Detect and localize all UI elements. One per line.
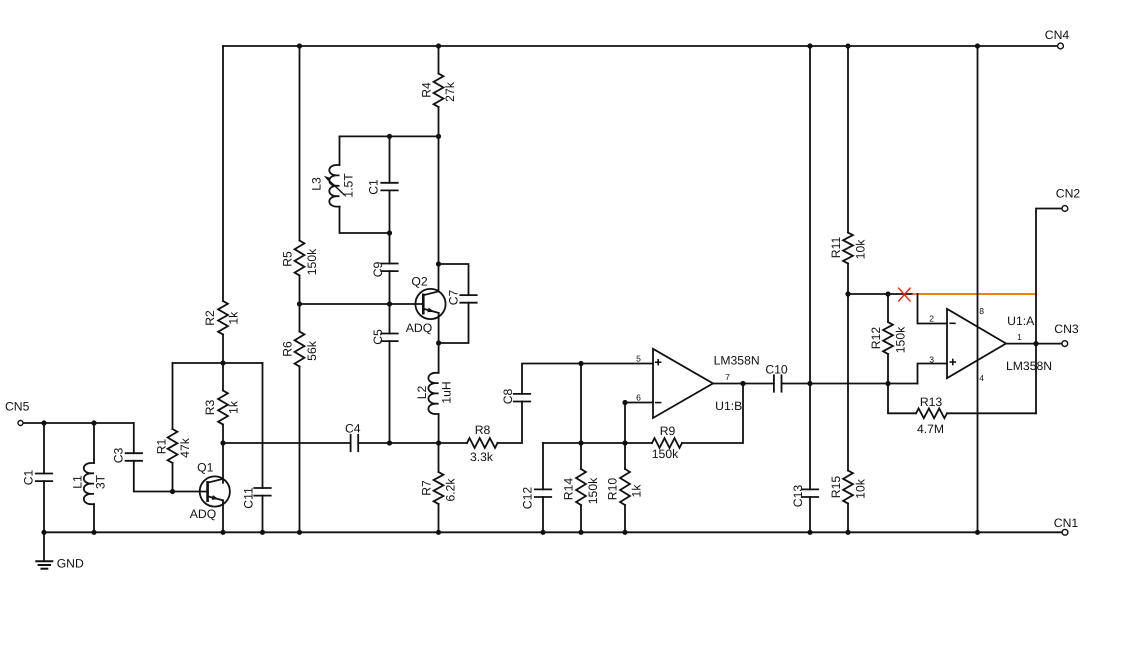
svg-text:LM358N: LM358N bbox=[714, 354, 760, 368]
svg-text:27k: 27k bbox=[443, 81, 457, 102]
svg-text:CN1: CN1 bbox=[1054, 516, 1079, 530]
svg-text:R1: R1 bbox=[155, 438, 169, 454]
svg-text:Q1: Q1 bbox=[197, 461, 213, 475]
ERC error mark X bbox=[899, 288, 910, 301]
wire bias node line bbox=[173, 362, 263, 364]
capacitor C1 tank bbox=[381, 182, 397, 184]
junction bottom rail R15 bbox=[845, 530, 850, 535]
svg-text:1k: 1k bbox=[630, 484, 644, 498]
wire C4 signal line bbox=[223, 442, 351, 444]
resistor R8 bbox=[467, 438, 498, 448]
resistor R6 bbox=[295, 332, 305, 367]
wire R3 leads bbox=[222, 363, 224, 391]
wire top power rail bbox=[223, 45, 1058, 47]
wire U1B output line bbox=[714, 383, 774, 385]
wire L3 leads and tank bottom bbox=[339, 136, 341, 165]
svg-text:7: 7 bbox=[725, 372, 730, 382]
svg-text:R4: R4 bbox=[420, 82, 434, 98]
svg-text:C4: C4 bbox=[345, 422, 361, 436]
svg-text:150k: 150k bbox=[652, 447, 679, 461]
svg-text:R6: R6 bbox=[281, 341, 295, 357]
svg-text:C7: C7 bbox=[447, 289, 461, 305]
junction Q2 collector C7 bbox=[436, 261, 441, 266]
junction bottom rail GND bbox=[41, 530, 46, 535]
wire CN5 input line bbox=[23, 422, 133, 424]
svg-text:1k: 1k bbox=[227, 400, 241, 414]
svg-text:47k: 47k bbox=[178, 437, 192, 458]
op-amp U1:A bbox=[947, 309, 1006, 378]
wire C11 branch bbox=[262, 363, 264, 488]
capacitor C10 bbox=[773, 375, 775, 391]
svg-text:R14: R14 bbox=[562, 478, 576, 501]
junction tank bottom bbox=[387, 230, 392, 235]
svg-text:R9: R9 bbox=[660, 424, 676, 438]
svg-text:2: 2 bbox=[929, 313, 934, 323]
svg-text:C9: C9 bbox=[371, 261, 385, 277]
capacitor C13 bbox=[802, 488, 818, 490]
wire pin3 stub bbox=[918, 364, 948, 384]
capacitor C12 bbox=[535, 488, 551, 490]
capacitor C8 bbox=[514, 393, 530, 395]
junction CN5 line C1 bbox=[41, 420, 46, 425]
resistor R2 bbox=[218, 301, 228, 335]
wire R9 node line bbox=[543, 442, 652, 444]
junction pin5 line R14 bbox=[578, 361, 583, 366]
svg-text:R13: R13 bbox=[920, 395, 943, 409]
svg-text:C10: C10 bbox=[765, 362, 788, 376]
resistor R9 bbox=[652, 438, 682, 448]
svg-text:GND: GND bbox=[57, 557, 84, 571]
svg-text:1k: 1k bbox=[227, 311, 241, 325]
svg-text:CN3: CN3 bbox=[1054, 322, 1079, 336]
capacitor C4 bbox=[350, 435, 352, 451]
junction bottom rail L1 bbox=[91, 530, 96, 535]
resistor R12 bbox=[883, 322, 893, 354]
inductor L3 variable bbox=[329, 165, 339, 207]
wire pin6 and R10 branch bbox=[625, 403, 653, 470]
capacitor C11 bbox=[254, 487, 270, 489]
wire tank C1 leads bbox=[389, 136, 391, 182]
svg-text:ADQ: ADQ bbox=[190, 507, 216, 521]
svg-text:Q2: Q2 bbox=[411, 275, 427, 289]
connector CN5 bbox=[18, 421, 23, 426]
wire R12 leads bbox=[887, 294, 889, 322]
junction R11 R15 node bbox=[845, 291, 850, 296]
junction top rail R5 branch bbox=[297, 43, 302, 48]
svg-text:C1: C1 bbox=[22, 469, 36, 485]
junction bias node R2 R3 bbox=[220, 360, 225, 365]
svg-text:R3: R3 bbox=[203, 399, 217, 415]
svg-text:LM358N: LM358N bbox=[1006, 359, 1052, 373]
junction tank top C1 bbox=[387, 134, 392, 139]
wire R2 branch bbox=[222, 46, 224, 301]
junction bottom rail pin4 bbox=[975, 530, 980, 535]
wire highlighted net bbox=[914, 293, 1037, 295]
wire U1A output to CN3 bbox=[1006, 343, 1062, 345]
svg-text:C3: C3 bbox=[112, 447, 126, 463]
junction C5 column C4 line bbox=[387, 440, 392, 445]
junction bottom rail C11 bbox=[260, 530, 265, 535]
wire L1 leads bbox=[93, 423, 95, 463]
svg-text:C11: C11 bbox=[242, 487, 256, 509]
svg-text:CN2: CN2 bbox=[1056, 187, 1081, 201]
transistor Q1 bbox=[200, 476, 230, 506]
junction bottom rail C12 bbox=[540, 530, 545, 535]
svg-text:R15: R15 bbox=[829, 476, 843, 499]
svg-text:6.2k: 6.2k bbox=[444, 478, 458, 502]
junction CN5 line L1 bbox=[91, 420, 96, 425]
wire Q2 emitter to L2 bbox=[438, 313, 440, 373]
wire C9 C5 column bbox=[389, 233, 391, 264]
svg-text:1uH: 1uH bbox=[440, 381, 454, 403]
wire R4 collector branch bbox=[438, 46, 440, 74]
svg-text:C13: C13 bbox=[791, 485, 805, 508]
svg-text:R5: R5 bbox=[281, 251, 295, 267]
svg-text:C1: C1 bbox=[367, 179, 381, 195]
resistor R7 bbox=[434, 472, 444, 504]
junction bottom rail R6 bbox=[297, 530, 302, 535]
svg-text:C5: C5 bbox=[371, 329, 385, 345]
svg-text:C12: C12 bbox=[521, 487, 535, 510]
junction R9 node R10 bbox=[622, 440, 627, 445]
junction bottom rail Q1 emitter bbox=[220, 530, 225, 535]
svg-text:4.7M: 4.7M bbox=[917, 422, 944, 436]
junction Q1 base R1 bbox=[170, 489, 175, 494]
wire C3 branch to Q1 base bbox=[133, 423, 135, 453]
svg-text:L3: L3 bbox=[310, 177, 324, 191]
svg-text:L1: L1 bbox=[71, 475, 85, 489]
svg-text:R2: R2 bbox=[203, 310, 217, 326]
svg-text:CN5: CN5 bbox=[5, 400, 30, 414]
wire Q2 base line bbox=[300, 303, 424, 305]
wire R11 to X node bbox=[848, 293, 918, 295]
capacitor C5 bbox=[381, 333, 397, 335]
svg-text:56k: 56k bbox=[305, 340, 319, 361]
junction bottom rail R10 bbox=[622, 530, 627, 535]
capacitor C9 bbox=[381, 263, 397, 265]
connector CN1 bbox=[1062, 529, 1068, 535]
wire bottom rail bbox=[44, 531, 1062, 533]
svg-text:U1:A: U1:A bbox=[1007, 314, 1035, 328]
ground bbox=[43, 532, 45, 561]
svg-text:150k: 150k bbox=[894, 326, 908, 353]
wire R1 leads bbox=[172, 363, 174, 429]
wire R5 R6 branch bbox=[299, 46, 301, 241]
wire R14 branch bbox=[580, 364, 582, 470]
resistor R10 bbox=[620, 469, 630, 505]
junction U1B output R9 bbox=[740, 381, 745, 386]
svg-text:3.3k: 3.3k bbox=[470, 450, 494, 464]
wire Q1 emitter to rail bbox=[222, 500, 224, 532]
junction tank top R4 bbox=[436, 134, 441, 139]
svg-text:ADQ: ADQ bbox=[406, 321, 432, 335]
junction bottom rail C13 bbox=[807, 530, 812, 535]
wire C13 column bbox=[809, 46, 811, 489]
svg-text:U1:B: U1:B bbox=[715, 399, 742, 413]
wire CN2 branch bbox=[1036, 209, 1062, 414]
junction top rail R4 branch bbox=[436, 43, 441, 48]
svg-text:4: 4 bbox=[979, 373, 984, 383]
resistor R3 bbox=[218, 391, 228, 425]
capacitor C3 bbox=[126, 452, 142, 454]
svg-text:8: 8 bbox=[979, 306, 984, 316]
wire C12 branch bbox=[542, 443, 544, 489]
junction L2 C4 line bbox=[436, 440, 441, 445]
wire C7 loop bbox=[439, 264, 469, 295]
wire tank top bbox=[340, 135, 439, 137]
resistor R1 bbox=[168, 429, 178, 463]
wire R8 to C8 to pin5 bbox=[498, 402, 523, 444]
svg-text:R12: R12 bbox=[869, 327, 883, 350]
svg-text:10k: 10k bbox=[854, 239, 868, 260]
junction output line R12 bbox=[885, 381, 890, 386]
resistor R11 bbox=[843, 233, 853, 264]
resistor R13 bbox=[916, 408, 947, 418]
junction output line C13 column bbox=[807, 381, 812, 386]
op-amp U1:B bbox=[653, 349, 713, 418]
wire C1 branch bbox=[43, 423, 45, 474]
resistor R14 bbox=[576, 469, 586, 505]
svg-text:1.5T: 1.5T bbox=[342, 173, 356, 198]
wire R11 R15 column bbox=[847, 46, 849, 233]
svg-text:5: 5 bbox=[636, 354, 641, 364]
svg-text:L2: L2 bbox=[415, 386, 429, 400]
junction top rail C13 branch bbox=[807, 43, 812, 48]
svg-text:R10: R10 bbox=[606, 478, 620, 501]
resistor R5 bbox=[295, 241, 305, 276]
wire pin8 pin4 power line bbox=[977, 46, 979, 532]
junction U1A output CN2 column bbox=[1033, 341, 1038, 346]
junction Q2 emitter C7 bbox=[436, 340, 441, 345]
inductor L1 bbox=[84, 463, 94, 504]
junction R5 R6 Q2 base bbox=[297, 301, 302, 306]
wire R13 feedback loop bbox=[888, 384, 916, 414]
junction bottom rail R7 bbox=[436, 530, 441, 535]
junction pin6 R10 bbox=[622, 400, 627, 405]
svg-text:R7: R7 bbox=[420, 480, 434, 496]
junction top rail R11 branch bbox=[845, 43, 850, 48]
svg-text:6: 6 bbox=[636, 393, 641, 403]
inductor L2 bbox=[428, 373, 438, 414]
wire R7 leads bbox=[438, 443, 440, 472]
wire pin2 stub bbox=[918, 294, 948, 324]
resistor R15 bbox=[843, 471, 853, 504]
junction R12 top bbox=[885, 291, 890, 296]
connector CN3 bbox=[1062, 341, 1068, 347]
svg-text:C8: C8 bbox=[501, 388, 515, 404]
junction top rail pin8 branch bbox=[975, 43, 980, 48]
resistor R4 bbox=[434, 74, 444, 108]
svg-text:150k: 150k bbox=[586, 477, 600, 504]
svg-text:1: 1 bbox=[1017, 332, 1022, 342]
connector CN4 bbox=[1058, 43, 1064, 49]
connector CN2 bbox=[1062, 206, 1068, 212]
junction R9 node R14 bbox=[578, 440, 583, 445]
capacitor C7 bbox=[460, 294, 476, 296]
capacitor C1 input bbox=[36, 473, 52, 475]
svg-text:10k: 10k bbox=[854, 478, 868, 499]
svg-text:3T: 3T bbox=[94, 474, 108, 489]
junction bottom rail R14 bbox=[578, 530, 583, 535]
transistor Q2 bbox=[415, 289, 445, 319]
svg-text:CN4: CN4 bbox=[1045, 28, 1070, 42]
svg-text:R8: R8 bbox=[475, 423, 491, 437]
svg-text:R11: R11 bbox=[829, 237, 843, 259]
svg-text:3: 3 bbox=[929, 354, 934, 364]
junction Q1 collector C4 line bbox=[220, 440, 225, 445]
svg-text:150k: 150k bbox=[305, 248, 319, 275]
junction C9 column Q2 base bbox=[387, 301, 392, 306]
